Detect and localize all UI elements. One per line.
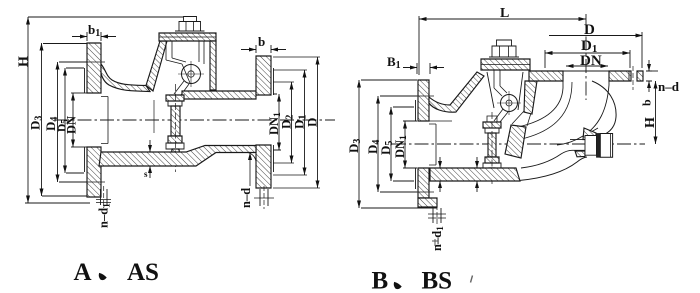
left valve bottom wall (hatched band with step) xyxy=(99,146,256,167)
right valve elbow outer bore arc xyxy=(557,85,609,145)
dimension b (outlet flange thickness, top) xyxy=(256,45,271,53)
right valve inlet flange (section, hatched) xyxy=(418,80,429,121)
dimension B1 (inlet flange thickness) xyxy=(417,63,430,74)
right valve neck wall from flange (hatched band) xyxy=(429,72,484,112)
n-d1 bolt hole symbol (inlet flange bottom) xyxy=(101,189,108,205)
dimension DN1 (right valve bore) xyxy=(404,121,406,168)
svg-text:D3: D3 xyxy=(28,116,45,130)
right valve bonnet bolt and nut xyxy=(497,40,512,46)
svg-text:b: b xyxy=(640,99,654,106)
small speck above B xyxy=(432,239,438,246)
inlet flange raised face xyxy=(415,100,417,189)
left valve hinge arm to disc xyxy=(174,81,189,95)
left valve body interior seat line xyxy=(153,100,155,133)
right valve bonnet left wall xyxy=(487,72,523,110)
dimension s (wall thickness) xyxy=(149,140,151,178)
right valve bonnet interior lines xyxy=(494,70,507,96)
dimension b (outlet flange thickness, right) xyxy=(646,71,652,81)
right valve hinge arm to disc xyxy=(494,109,508,122)
right valve bottom wall (hatched band) xyxy=(430,168,520,181)
svg-text:n–d1: n–d1 xyxy=(430,226,446,251)
svg-text:A: A xyxy=(74,259,92,286)
left valve top pipe wall (hatched band) xyxy=(182,91,256,99)
svg-text:BS: BS xyxy=(422,268,453,293)
svg-text:n–d: n–d xyxy=(658,79,680,94)
left valve bonnet right wall (hatched strip) xyxy=(210,41,216,90)
centerline (horizontal) right valve xyxy=(392,143,645,145)
n-d bolt hole (outlet flange) xyxy=(629,71,637,81)
right valve body outer wall arc xyxy=(592,81,616,134)
dimension D3 (flange OD) xyxy=(41,43,43,196)
right valve bonnet cap (hatched bar) xyxy=(481,59,530,70)
dimension DN (outlet bore) xyxy=(566,65,608,67)
left valve hinge pin circle xyxy=(182,65,201,84)
svg-text:H: H xyxy=(17,56,32,67)
dimension D2 xyxy=(291,82,293,163)
dimension DN1 (right of outlet flange) xyxy=(278,94,280,150)
left valve bonnet bolt and nut xyxy=(184,17,197,22)
wall thickness tick (right valve, near seat) xyxy=(476,157,478,192)
n-d1 bolt hole symbol (right valve inlet flange) xyxy=(433,208,441,223)
right valve tapered throat to drain boss xyxy=(519,157,587,181)
dimension L (top) xyxy=(419,18,586,20)
dimension D5 (raised face) xyxy=(64,68,66,173)
left valve bonnet interior lines xyxy=(166,41,186,64)
left valve outlet flange (section, hatched) xyxy=(256,56,271,95)
svg-text:n–d: n–d xyxy=(239,188,253,208)
right valve inlet bore top edge into chamber xyxy=(429,120,452,122)
right valve elbow inner arc (bend inside) xyxy=(518,88,563,127)
bolt hole ticks on inlet flange xyxy=(83,62,105,182)
svg-text:DN: DN xyxy=(65,116,79,134)
wall thickness tick (right valve, bottom band near flange) xyxy=(439,157,441,192)
svg-text:b1: b1 xyxy=(88,22,100,39)
svg-text:AS: AS xyxy=(127,259,159,286)
disc vertical dashed centerline xyxy=(491,112,493,184)
right valve disc assembly (stack) xyxy=(483,122,501,128)
throat wall hatched wedge above boss collar xyxy=(583,128,596,140)
inlet flange bore lines xyxy=(418,121,429,168)
svg-text:D: D xyxy=(305,118,320,127)
svg-text:B: B xyxy=(372,268,389,293)
svg-text:D: D xyxy=(584,22,595,38)
right valve drain boss (plug) xyxy=(570,140,585,151)
dimension DN (bore) xyxy=(72,93,74,147)
left valve bonnet cap (hatched bar) xyxy=(159,33,216,41)
dimension D (outlet flange OD) xyxy=(317,57,319,188)
centerline (horizontal) left valve xyxy=(55,119,335,121)
right valve disc top nut xyxy=(487,116,497,122)
dimension D4 xyxy=(377,96,379,192)
right valve bonnet right wall (hatched strip) xyxy=(524,81,537,114)
centerline (vertical, outlet axis) xyxy=(585,14,587,100)
svg-text:s: s xyxy=(144,169,148,179)
svg-text:D3: D3 xyxy=(346,139,363,153)
svg-text:DN: DN xyxy=(580,53,602,69)
svg-text:b: b xyxy=(258,34,265,49)
right valve hinge pin circle xyxy=(501,95,518,112)
svg-text:L: L xyxy=(500,6,509,21)
dimension D3 (left of right valve) xyxy=(358,80,360,208)
caption ideographic comma 1 xyxy=(99,274,106,280)
left valve rising wall to bonnet (hatched band) xyxy=(146,41,167,91)
svg-text:DN1: DN1 xyxy=(393,135,409,158)
svg-text:n–d1: n–d1 xyxy=(97,203,113,228)
inlet flange foot xyxy=(418,198,437,207)
small speck right of BS xyxy=(471,276,473,283)
inlet flange bore lines xyxy=(87,93,101,147)
bolt hole ticks on right inlet flange xyxy=(413,96,434,192)
svg-text:B1: B1 xyxy=(387,54,401,71)
right valve outlet bore walls xyxy=(563,81,609,88)
dimension D4 (bolt circle) xyxy=(57,62,59,182)
dimension b1 (inlet flange thickness, top) xyxy=(87,32,101,41)
disc vertical dashed centerline xyxy=(175,84,177,172)
left valve inlet flange (section, hatched) xyxy=(87,43,101,93)
throat wall hatched wedge below boss collar xyxy=(575,151,585,157)
left valve neck wall from flange to body (hatched band) xyxy=(101,64,150,92)
inlet flange raised face line xyxy=(84,68,86,172)
dimension H (left, overall height) xyxy=(27,17,29,203)
right valve outlet flange (top, hatched with bore gap) xyxy=(529,71,563,81)
right valve seat wall (hatched partition right of disc) xyxy=(505,125,526,158)
n-d bolt hole symbol (outlet flange bottom) xyxy=(260,189,268,206)
dimension D5 xyxy=(390,107,392,181)
dimension D (outlet flange OD) xyxy=(549,35,642,37)
dimension H (right) xyxy=(646,70,658,72)
svg-text:H: H xyxy=(643,117,658,128)
dimension D1 xyxy=(304,70,306,175)
dimension D1 (bolt circle) xyxy=(545,52,630,54)
left valve disc assembly (stack) xyxy=(166,95,184,101)
caption ideographic comma 2 xyxy=(394,283,401,289)
